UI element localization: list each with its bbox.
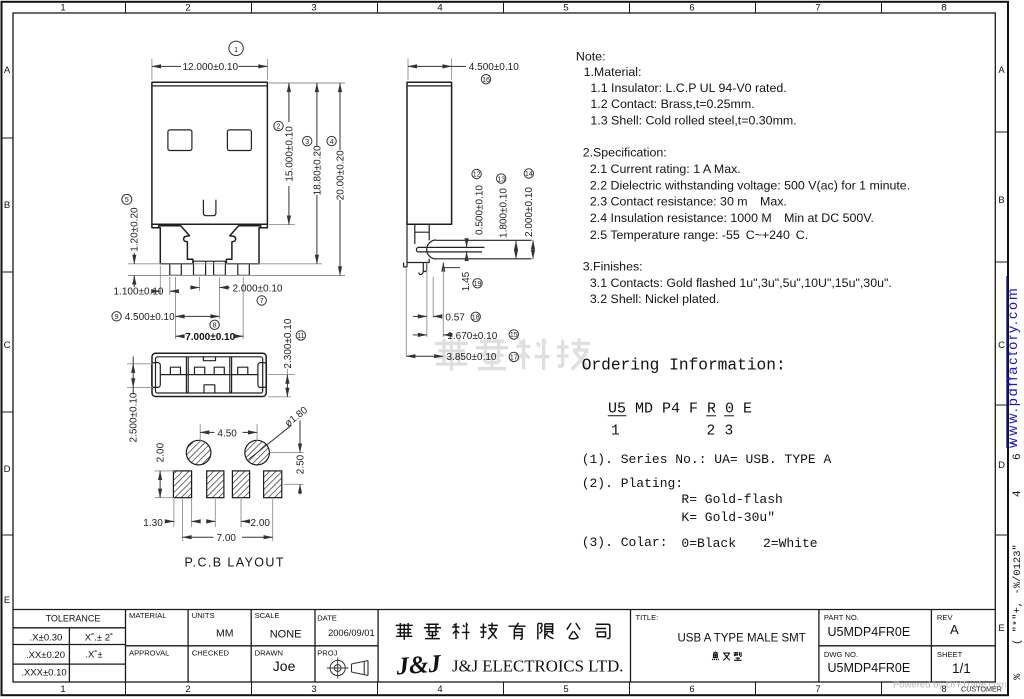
svg-text:3: 3	[311, 684, 316, 695]
pcb pad S3 hatched	[232, 471, 249, 498]
svg-text:1: 1	[60, 684, 65, 695]
balloon 5	[122, 194, 132, 204]
svg-text:(3). Colar:: (3). Colar:	[582, 535, 668, 550]
svg-text:3: 3	[305, 139, 309, 146]
svg-text:2: 2	[277, 124, 281, 131]
projection symbol cone	[352, 661, 369, 676]
svg-text:4: 4	[437, 684, 442, 695]
svg-text:6: 6	[689, 684, 694, 695]
side view bottom flange	[404, 259, 430, 267]
svg-text:SCALE: SCALE	[255, 611, 280, 620]
svg-text:2=White: 2=White	[763, 536, 818, 551]
bottom view floor line	[160, 374, 258, 376]
svg-text:CHECKED: CHECKED	[192, 649, 230, 658]
svg-text:15.000±0.10: 15.000±0.10	[284, 126, 295, 182]
svg-text:USB A TYPE MALE SMT: USB A TYPE MALE SMT	[678, 632, 806, 644]
bottom view contact bump 2	[195, 367, 205, 374]
svg-text:1/1: 1/1	[952, 661, 971, 676]
bottom view left tab	[152, 363, 161, 388]
svg-text:( "*"+, -%/0123": ( "*"+, -%/0123"	[1012, 544, 1024, 645]
svg-text:6 ’: 6 ’	[1012, 440, 1024, 460]
border column ticks bottom	[126, 682, 882, 695]
svg-text:J&J: J&J	[395, 650, 444, 680]
svg-text:4: 4	[1012, 490, 1024, 497]
svg-text:.XXX±0.10: .XXX±0.10	[21, 668, 66, 679]
svg-text:0.500±0.10: 0.500±0.10	[474, 185, 485, 235]
svg-text:.XX±0.20: .XX±0.20	[26, 650, 65, 661]
bottom view inner wall	[156, 357, 263, 393]
svg-text:3: 3	[311, 3, 316, 14]
dim ø1.80 leader	[249, 425, 292, 459]
side view hook foot	[419, 263, 427, 275]
dim 0.500 arrows	[466, 241, 468, 248]
svg-text:1.3 Shell: Cold rolled steel,t: 1.3 Shell: Cold rolled steel,t=0.30mm.	[590, 114, 796, 128]
dim 2.500 extension lines	[127, 363, 153, 365]
dim 18.80 line	[316, 83, 318, 146]
svg-text:1: 1	[60, 3, 65, 14]
svg-text:DATE: DATE	[317, 614, 337, 623]
svg-text:1.45: 1.45	[461, 271, 472, 291]
svg-text:UNITS: UNITS	[192, 611, 215, 620]
svg-text:7: 7	[815, 684, 820, 695]
svg-text:A: A	[950, 622, 959, 637]
pcb pad S4 hatched	[264, 471, 282, 498]
svg-text:20.00±0.20: 20.00±0.20	[335, 150, 346, 200]
dim 4.50	[200, 431, 214, 433]
underline U5	[608, 415, 627, 417]
svg-text:7: 7	[260, 298, 264, 305]
svg-text:(1). Series No.: UA= USB. TYPE: (1). Series No.: UA= USB. TYPE A	[582, 452, 832, 467]
dim 2.00 pitch	[207, 520, 216, 522]
svg-text:9: 9	[115, 314, 119, 321]
balloon 4	[327, 136, 336, 145]
pcb pad S1 hatched	[173, 471, 191, 498]
svg-text:2.300±0.10: 2.300±0.10	[283, 318, 294, 368]
front view pin 3	[214, 261, 226, 275]
balloon 13	[497, 174, 506, 183]
svg-text:APPROVAL: APPROVAL	[129, 649, 169, 658]
svg-text:17: 17	[510, 355, 518, 362]
svg-text:2.50: 2.50	[295, 454, 306, 474]
svg-text:MM: MM	[216, 627, 234, 639]
svg-text:2.1 Current rating: 1 A Max.: 2.1 Current rating: 1 A Max.	[590, 162, 741, 176]
svg-text:3.850±0.10: 3.850±0.10	[447, 352, 497, 363]
svg-text:2.500±0.10: 2.500±0.10	[129, 392, 140, 442]
dim 12.000 extension lines	[151, 59, 153, 80]
company chinese name (vector strokes)	[396, 623, 610, 640]
svg-text:NONE: NONE	[270, 628, 302, 640]
svg-text:5: 5	[563, 684, 568, 695]
dim 2.00 left extension lines	[155, 470, 175, 472]
dim 1.45	[442, 263, 444, 268]
front view right leg	[226, 224, 267, 264]
dim 3.850	[406, 355, 443, 357]
bottom view slot divider right	[230, 357, 232, 392]
svg-text:.X±0.30: .X±0.30	[30, 633, 63, 644]
svg-text:2.000±0.10: 2.000±0.10	[524, 187, 535, 237]
svg-text:Note:: Note:	[576, 49, 606, 63]
svg-text:ø1.80: ø1.80	[283, 405, 310, 430]
border row ticks right	[995, 132, 1008, 535]
right side extension lines of front view	[269, 82, 345, 84]
dim 15.000 line	[288, 83, 290, 122]
svg-text:12.000±0.10: 12.000±0.10	[183, 62, 239, 73]
balloon 14	[524, 169, 533, 178]
svg-text:2.3 Contact resistance: 30 m: 2.3 Contact resistance: 30 m Max.	[590, 195, 787, 209]
svg-text:4.500±0.10: 4.500±0.10	[469, 62, 519, 73]
front view pin 1	[170, 264, 182, 276]
svg-text:2.000±0.10: 2.000±0.10	[233, 284, 283, 295]
balloon 15	[509, 330, 518, 339]
dim 4.50 extension lines	[199, 424, 201, 441]
dim 7.00	[183, 536, 214, 538]
balloon 19	[473, 279, 482, 288]
svg-text:PART NO.: PART NO.	[824, 613, 859, 622]
svg-text:2.Specification:: 2.Specification:	[583, 146, 667, 160]
svg-text:8: 8	[941, 3, 946, 14]
svg-text:18: 18	[472, 315, 480, 322]
svg-text:MATERIAL: MATERIAL	[129, 611, 166, 620]
pcb hole pad 2 hatched	[245, 440, 270, 465]
svg-text:REV: REV	[937, 613, 954, 622]
dim 2.000 line	[532, 240, 534, 258]
dim 0.57	[413, 315, 427, 317]
dim 1.20 arrows	[133, 253, 135, 264]
svg-text:(2). Plating:: (2). Plating:	[582, 476, 683, 491]
bottom view outer shell	[152, 353, 266, 396]
svg-text:6: 6	[689, 3, 694, 14]
balloon 16	[481, 75, 490, 84]
svg-text:1.2 Contact: Brass,t=0.25mm.: 1.2 Contact: Brass,t=0.25mm.	[590, 97, 754, 111]
bottom view top key	[203, 357, 215, 361]
bottom view slot divider left	[186, 357, 188, 392]
svg-text:4: 4	[437, 3, 442, 14]
side view contact slot	[416, 247, 484, 252]
svg-text:0.57: 0.57	[445, 312, 465, 323]
svg-text:13: 13	[497, 176, 505, 183]
front view pin 2	[194, 261, 206, 275]
dim 2.300 line	[286, 369, 288, 375]
front view right window	[227, 130, 251, 151]
gray watermark 華基科技 (vector strokes)	[435, 338, 590, 371]
svg-text:DRAWN: DRAWN	[255, 649, 283, 658]
balloon 7	[257, 296, 266, 305]
balloon 2	[274, 121, 283, 130]
svg-text:2: 2	[707, 424, 716, 440]
svg-text:4.500±0.10: 4.500±0.10	[125, 312, 175, 323]
underline 0	[724, 415, 734, 417]
note block	[576, 49, 910, 306]
svg-text:1: 1	[611, 424, 620, 440]
side view rolled contact bump	[427, 240, 437, 259]
bottom view bottom key	[204, 385, 215, 393]
balloon 17	[509, 352, 518, 361]
pcb lower extension lines	[173, 499, 175, 527]
underline R	[706, 415, 716, 417]
tolerance grid	[13, 627, 126, 629]
svg-text:4.50: 4.50	[217, 428, 237, 439]
svg-text:2006/09/01: 2006/09/01	[328, 628, 375, 638]
side view lower extension lines	[405, 267, 407, 356]
title block frame lines	[13, 610, 995, 683]
svg-text:TITLE:: TITLE:	[636, 613, 659, 622]
svg-text:1.100±0.10: 1.100±0.10	[114, 287, 164, 298]
svg-text:1.Material:: 1.Material:	[584, 65, 642, 79]
front view center bottom edge	[193, 260, 227, 262]
front view U notch	[203, 200, 216, 216]
bottom view right tab	[258, 363, 267, 388]
svg-text:5: 5	[563, 3, 568, 14]
svg-text:PROJ: PROJ	[317, 649, 337, 658]
svg-text:5: 5	[125, 197, 129, 204]
front view left leg	[152, 224, 193, 264]
svg-text:3.Finishes:: 3.Finishes:	[583, 260, 643, 274]
svg-text:2.00: 2.00	[155, 442, 166, 462]
svg-text:3: 3	[725, 424, 734, 440]
svg-text:E: E	[998, 623, 1004, 634]
svg-text:D: D	[998, 460, 1005, 471]
front view top double line	[152, 85, 268, 87]
svg-text:16: 16	[482, 77, 490, 84]
dim 2.00 left line	[159, 471, 161, 498]
svg-text:SHEET: SHEET	[937, 650, 963, 659]
pcb pad S2 hatched	[207, 471, 224, 498]
svg-text:D: D	[4, 464, 11, 475]
side view lower left column	[407, 224, 429, 262]
svg-text:E: E	[4, 595, 10, 606]
svg-text:C: C	[4, 340, 11, 351]
balloon 9 + dim 4.500	[112, 312, 121, 321]
svg-text:A: A	[998, 65, 1005, 76]
svg-text:3.1 Contacts: Gold flashed 1u": 3.1 Contacts: Gold flashed 1u",3u",5u",1…	[590, 276, 892, 290]
svg-text:11: 11	[297, 333, 304, 340]
svg-text:%: %	[1012, 673, 1024, 680]
svg-text:2.5 Temperature range: -55 C~: 2.5 Temperature range: -55 C~+240 C.	[590, 228, 808, 242]
svg-text:P.C.B LAYOUT: P.C.B LAYOUT	[185, 556, 285, 570]
svg-text:2: 2	[185, 3, 190, 14]
svg-text:R= Gold-flash: R= Gold-flash	[681, 492, 782, 507]
svg-text:19: 19	[474, 281, 482, 288]
projection symbol crosshair circle	[330, 660, 345, 675]
dim 1.800 line	[515, 241, 517, 259]
front view shell body	[152, 82, 268, 224]
border row ticks left	[2, 138, 14, 535]
svg-text:B: B	[4, 200, 10, 211]
svg-text:0=Black: 0=Black	[681, 536, 736, 551]
svg-text:Joe: Joe	[273, 658, 296, 674]
balloon 3	[303, 136, 312, 145]
side view shell body	[407, 82, 452, 224]
svg-text:15: 15	[510, 332, 518, 339]
svg-text:7.000±0.10: 7.000±0.10	[185, 332, 235, 343]
svg-text:1.20±0.20: 1.20±0.20	[130, 207, 141, 252]
dim 12.000 line	[152, 65, 181, 67]
svg-text:7.00: 7.00	[217, 533, 237, 544]
balloon 8 + dim 7.000	[210, 320, 219, 329]
svg-text:B: B	[998, 195, 1004, 206]
side view tongue bottom line	[436, 258, 532, 260]
front view left window	[168, 130, 192, 151]
svg-text:1.1 Insulator: L.C.P UL 94-V0: 1.1 Insulator: L.C.P UL 94-V0 rated.	[590, 81, 786, 95]
svg-text:.X˚±: .X˚±	[85, 650, 102, 661]
front view pin 4	[238, 264, 250, 276]
svg-text:14: 14	[525, 171, 533, 178]
dim 2.500 line	[132, 357, 134, 364]
svg-text:12: 12	[473, 172, 481, 179]
balloon 1	[229, 41, 243, 55]
balloon 12	[472, 169, 481, 178]
side view top double line	[407, 85, 452, 87]
svg-text:CUSTOMER: CUSTOMER	[961, 685, 1002, 694]
dim 1.670	[413, 334, 427, 336]
bottom view contact bump 4	[238, 367, 248, 374]
svg-text:1.800±0.10: 1.800±0.10	[498, 188, 509, 238]
pcb hole pad 1 hatched	[186, 440, 211, 465]
svg-text:U5MDP4FR0E: U5MDP4FR0E	[828, 661, 911, 675]
bottom view contact bump 3	[214, 367, 224, 374]
svg-text:TOLERANCE: TOLERANCE	[46, 613, 101, 623]
svg-text:3.2 Shell: Nickel plated.: 3.2 Shell: Nickel plated.	[590, 292, 720, 306]
svg-text:X˚.± 2˚: X˚.± 2˚	[85, 633, 113, 644]
svg-text:K= Gold-30u": K= Gold-30u"	[681, 510, 775, 525]
svg-text:Ordering Information:: Ordering Information:	[582, 357, 786, 375]
svg-text:1: 1	[234, 47, 238, 54]
lower extension lines front view	[159, 266, 161, 295]
svg-text:7: 7	[815, 3, 820, 14]
svg-text:2.2 Dielectric withstanding vo: 2.2 Dielectric withstanding voltage: 500…	[590, 179, 910, 193]
dim 2.300 extension lines	[268, 374, 295, 376]
balloon 11	[296, 331, 305, 340]
svg-text:8: 8	[213, 323, 217, 330]
svg-text:2.00: 2.00	[251, 518, 271, 529]
svg-text:2.4 Insulation resistance: 100: 2.4 Insulation resistance: 1000 M Min at…	[590, 211, 874, 225]
svg-text:1.670±0.10: 1.670±0.10	[447, 331, 497, 342]
svg-text:4: 4	[330, 139, 334, 146]
svg-text:A: A	[4, 65, 11, 76]
svg-text:DWG NO.: DWG NO.	[824, 650, 858, 659]
svg-text:1.30: 1.30	[143, 518, 163, 529]
svg-text:U5 MD P4 F R 0 E: U5 MD P4 F R 0 E	[608, 401, 752, 418]
dim 20.00 line	[339, 83, 341, 150]
side view tongue top line	[436, 239, 532, 241]
svg-text:18.80±0.20: 18.80±0.20	[312, 145, 323, 195]
svg-text:J&J ELECTROICS LTD.: J&J ELECTROICS LTD.	[452, 657, 623, 676]
bottom view contact bump 1	[170, 367, 180, 374]
dim 2.50 right extension lines	[269, 452, 303, 454]
dim 4.500 side top	[407, 59, 409, 81]
balloon 18	[471, 312, 480, 321]
svg-text:U5MDP4FR0E: U5MDP4FR0E	[828, 625, 911, 639]
svg-text:2: 2	[185, 684, 190, 695]
dim 2.000 pins	[191, 287, 200, 289]
dim 2.50 right arrows	[299, 420, 301, 452]
